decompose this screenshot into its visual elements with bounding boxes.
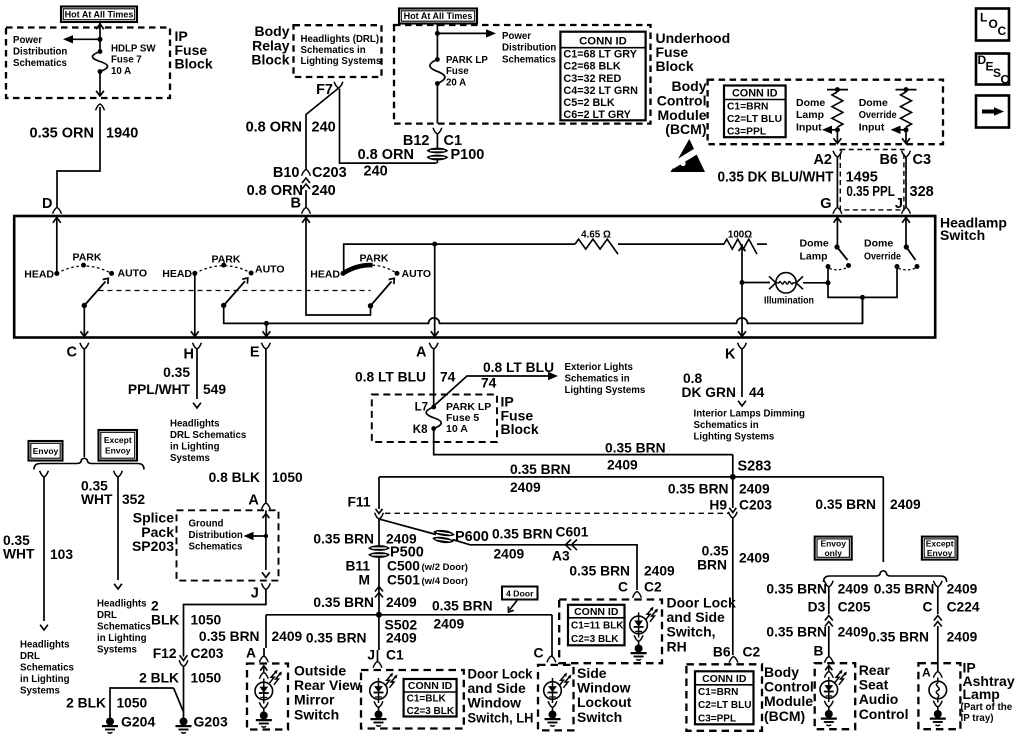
svg-text:CONN ID: CONN ID [574,606,619,618]
Body Relay Block dashed box [294,25,382,77]
connector fork to rear seat ground [824,701,833,707]
IP fuse block dashed box (lower) [372,395,497,443]
selector arc switch 1 [57,266,112,274]
svg-text:0.8 LT BLU: 0.8 LT BLU [355,370,426,385]
body control module bottom box [686,664,762,731]
svg-text:Control: Control [859,706,909,722]
connector fork Except Envoy right branch [933,581,942,587]
svg-text:Lamp: Lamp [963,686,1000,702]
ground inside rear seat audio [821,707,837,726]
ground inside mirror switch [256,709,272,728]
svg-text:Illumination: Illumination [764,295,814,307]
svg-text:Body: Body [764,664,799,680]
svg-text:C2=LT BLU: C2=LT BLU [727,114,782,125]
svg-text:2409: 2409 [838,582,869,597]
svg-text:Ground: Ground [189,519,224,530]
arrow from 4 Door to rail [510,601,518,611]
svg-text:4 Door: 4 Door [506,588,534,598]
ground G204 [102,715,118,734]
wire B12 to P100 [436,134,438,148]
svg-text:P100: P100 [451,147,485,163]
svg-text:0.35 ORN: 0.35 ORN [30,126,94,142]
wire up to dome lamp contact [827,267,829,283]
CONN ID table door lock RH [568,605,625,646]
connector fork at K [738,343,747,349]
svg-text:Block: Block [501,421,539,437]
wire D to HEAD contact (switch 1) [56,216,58,272]
svg-text:0.35 BRN: 0.35 BRN [432,599,493,614]
svg-text:AUTO: AUTO [402,268,432,280]
wire junction to E [265,323,267,336]
svg-text:0.35 BRN: 0.35 BRN [306,631,367,646]
svg-text:K8: K8 [413,424,428,436]
wire between resistors [618,243,724,245]
svg-text:AUTO: AUTO [118,268,148,280]
svg-text:C6=2 LT GRY: C6=2 LT GRY [563,109,631,121]
connector fork to mirror ground [259,702,268,708]
svg-text:Envoy: Envoy [105,446,131,456]
connector fork to RH ground [634,635,643,641]
wire from Hot At All Times to fuse [99,22,101,52]
wire S283 rail left corner to F11 [378,477,380,509]
svg-text:328: 328 [910,184,934,200]
connector fork at F11 C203 [375,513,384,519]
svg-text:Switch: Switch [294,706,339,722]
connector fork at splice pack J [262,583,271,589]
svg-text:CONN ID: CONN ID [732,88,778,100]
contact PARK switch 1 [81,263,86,268]
variant brace right [824,571,947,582]
svg-text:0.35 BRN: 0.35 BRN [492,527,553,542]
svg-text:C2=3 BLK: C2=3 BLK [407,706,455,717]
svg-text:CONN ID: CONN ID [702,673,747,685]
svg-text:Input: Input [796,121,822,133]
svg-text:2409: 2409 [272,629,303,644]
selector lever switch 3 [371,282,392,306]
svg-text:M: M [359,573,371,588]
svg-text:Hot At All Times: Hot At All Times [65,9,134,19]
svg-text:Window: Window [468,695,522,711]
svg-text:Schematics in: Schematics in [565,374,630,385]
svg-text:C: C [1001,73,1010,87]
variant brace below C [34,458,144,469]
svg-text:0.8 LT BLU: 0.8 LT BLU [483,360,554,375]
svg-text:Interior Lamps Dimming: Interior Lamps Dimming [694,409,806,420]
svg-text:Module: Module [764,693,813,709]
svg-text:DRL: DRL [97,610,117,621]
svg-text:L: L [980,11,987,25]
svg-text:Lighting Systems: Lighting Systems [694,432,775,443]
CONN ID table door lock LH [404,679,457,717]
svg-text:RH: RH [667,638,687,654]
connector chevrons C500/C501 [375,587,383,598]
contact HEAD switch 2 [192,271,197,276]
lightning bolt mirror switch [270,671,281,685]
svg-text:1940: 1940 [106,126,138,142]
connector chevron inside mirror switch [260,666,267,671]
svg-text:C: C [67,345,78,361]
svg-text:Envoy: Envoy [820,538,846,548]
svg-text:D: D [42,196,52,212]
svg-text:0.35 BRN: 0.35 BRN [313,595,374,610]
svg-text:2409: 2409 [510,480,541,495]
svg-text:(BCM): (BCM) [665,121,706,137]
svg-text:0.35 BRN: 0.35 BRN [766,582,827,597]
svg-text:549: 549 [203,382,226,397]
connector C203 dashed line [385,512,729,514]
svg-text:Headlights: Headlights [97,599,147,610]
connector fork at B [302,208,311,214]
svg-text:in Lighting: in Lighting [170,442,220,453]
illumination lamp [769,273,803,293]
node junction dome rail [860,295,865,300]
svg-text:PARK: PARK [360,253,389,265]
svg-text:J: J [895,196,903,212]
svg-text:Fuse: Fuse [446,66,469,77]
wire arrow to Power Distribution Schematics [72,38,100,40]
svg-text:0.35 BRN: 0.35 BRN [815,497,876,512]
svg-text:WHT: WHT [3,547,35,562]
resistor dome lamp input pull-up [827,89,848,91]
svg-text:0.35 BRN: 0.35 BRN [605,441,666,456]
svg-text:C2=LT BLU: C2=LT BLU [698,700,751,711]
wire 0.35 BRN C224 [937,587,939,614]
svg-text:Lighting Systems: Lighting Systems [301,56,382,67]
svg-text:PARK: PARK [212,254,241,266]
svg-text:C203: C203 [739,498,772,513]
connector fork at B12 C1 [433,128,442,134]
switch dome lamp [834,244,839,249]
svg-text:2: 2 [151,599,159,614]
svg-text:in Lighting: in Lighting [20,674,70,685]
wire G204 branch [110,688,174,716]
wire F7 diagonal to B10 [306,89,338,170]
splice pack SP203 dashed box [177,510,279,580]
svg-text:Except: Except [104,435,132,445]
wire F7 down-right to P100 [340,89,437,164]
svg-text:Door Lock: Door Lock [667,595,736,611]
svg-text:Window: Window [577,680,631,696]
label box Except Envoy (right) [922,537,958,560]
wire F11 to P600 [379,519,436,535]
wire 100 ohm tap to K [741,244,743,336]
svg-text:240: 240 [312,120,336,136]
connector fork at splice pack A [262,503,271,509]
selector lever switch 2 [224,281,245,305]
connector fork at J [902,208,911,214]
connector fork at door lock LH [373,662,382,668]
wire S502 lateral rail [266,614,552,616]
svg-text:(w/2 Door): (w/2 Door) [422,562,468,573]
node junction at resistor rail [432,242,437,247]
svg-text:10 A: 10 A [111,66,131,77]
svg-text:Systems: Systems [97,645,137,656]
svg-text:0.35 BRN: 0.35 BRN [874,582,935,597]
lamp IP ashtray [929,678,947,703]
svg-text:DRL: DRL [20,651,40,662]
ground G203 [176,715,192,734]
ESD sensitive device symbol [671,139,706,172]
svg-text:2409: 2409 [386,595,417,610]
svg-text:C3=PPL: C3=PPL [698,713,736,724]
outside rear view mirror switch box [247,664,288,730]
svg-text:74: 74 [440,370,456,385]
svg-text:74: 74 [481,376,497,391]
connector fork Envoy branch [40,471,49,477]
svg-text:SP203: SP203 [132,538,174,554]
svg-text:0.35 BRN: 0.35 BRN [766,625,827,640]
wire S283 rail [379,476,883,478]
lightning bolt lockout switch [559,674,570,688]
connector fork to ashtray ground [933,701,942,707]
wire B to switch 3 pivot [306,216,371,315]
selector lever switch 1 [84,282,105,306]
arrow up at B inside box [302,218,310,223]
svg-text:Lockout: Lockout [577,694,632,710]
svg-text:20 A: 20 A [446,77,466,88]
contact HEAD switch 3 [341,271,346,276]
svg-text:C203: C203 [191,646,224,661]
svg-text:Override: Override [864,251,901,263]
lamp rear seat audio [820,677,838,702]
svg-text:C5=2 BLK: C5=2 BLK [563,97,615,109]
contact PARK switch 2 [221,263,226,268]
svg-text:Lamp: Lamp [800,251,828,263]
variant dashed box 1495/0.35 PPL [840,150,904,210]
forward arrow reference box [976,96,1009,128]
svg-text:C1=68 LT GRY: C1=68 LT GRY [563,49,637,61]
connector chevrons C203 [302,178,310,189]
svg-text:0.8: 0.8 [683,371,703,386]
svg-text:Hot At All Times: Hot At All Times [404,11,473,21]
wire fuse to box bottom [436,84,438,124]
svg-text:C2=68 BLK: C2=68 BLK [563,61,621,73]
svg-text:Dome: Dome [796,97,825,109]
wire 0.35 DK BLU/WHT 1495 [836,157,838,207]
wire branch to exterior lights [434,376,549,406]
wire splice pack to F12 [184,590,266,657]
svg-text:Lamp: Lamp [796,109,824,121]
wire through splice pack [265,510,267,570]
DESC reference box [976,54,1009,85]
wire P600 to door lock RH [453,540,638,591]
svg-text:4.65 Ω: 4.65 Ω [581,230,611,241]
wire fuse to box edge [99,72,101,97]
connector fork at H [193,343,202,349]
svg-text:G203: G203 [194,714,228,730]
connector fork to LH ground [374,701,383,707]
wire P500 to S502 [378,557,380,615]
svg-text:2409: 2409 [947,630,978,645]
wire dome rail to park rail [862,297,864,323]
CONN ID table of BCM [724,86,786,138]
wire into PARK LP fuse [436,24,438,60]
svg-text:A: A [246,646,256,661]
svg-text:Mirror: Mirror [294,692,335,708]
svg-text:C1: C1 [386,648,404,663]
svg-text:Distribution: Distribution [502,43,556,54]
Underhood Fuse Block dashed box [394,25,651,124]
svg-text:G: G [820,196,831,212]
svg-text:in Lighting: in Lighting [97,633,147,644]
svg-text:Except: Except [926,538,954,548]
label box Envoy only [815,537,852,560]
svg-text:Headlights (DRL): Headlights (DRL) [301,34,380,45]
svg-text:G204: G204 [121,714,155,730]
wire lateral to lockout switch [551,615,553,656]
contact AUTO switch 3 [395,271,400,276]
svg-text:AUTO: AUTO [255,264,285,276]
svg-text:Fuse 7: Fuse 7 [111,55,142,66]
svg-text:Envoy: Envoy [33,446,59,456]
fuse HDLP SW Fuse 7 10 A [98,49,103,54]
wire 0.35 PPL 328 [905,157,907,207]
svg-text:C205: C205 [838,600,871,615]
svg-text:Switch: Switch [577,709,622,725]
connector fork at A [429,343,438,349]
fuse PARK LP Fuse 5 10 A [431,405,436,410]
mechanical linkage dashed line [99,290,371,292]
connector P500 [368,545,390,558]
svg-text:2409: 2409 [434,617,465,632]
svg-text:C: C [923,600,933,615]
svg-text:0.35 PPL: 0.35 PPL [846,184,895,200]
wire C203 to B [305,190,307,207]
svg-text:(Part of the: (Part of the [961,702,1013,713]
switch dome override [904,244,909,249]
wire P100 to corner [436,160,438,164]
svg-text:2409: 2409 [838,625,869,640]
svg-text:CONN ID: CONN ID [579,36,627,48]
selector arc switch 2 [195,266,251,274]
svg-text:Door Lock: Door Lock [468,666,533,682]
svg-text:2409: 2409 [890,497,921,512]
svg-text:BRN: BRN [697,558,727,573]
connector fork at G [833,208,842,214]
svg-text:IP tray): IP tray) [961,713,994,724]
connector fork at A2 [833,151,842,157]
wire K8 to S283 rail [434,429,733,455]
svg-text:1050: 1050 [191,613,222,628]
wire F12 to G203 [183,667,185,717]
connector fork at lockout switch [547,656,556,662]
svg-text:0.35 BRN: 0.35 BRN [569,564,630,579]
svg-text:Headlights: Headlights [170,419,220,430]
selector arc switch 3 (dashed) [373,265,398,273]
svg-text:Schematics: Schematics [13,58,67,69]
connector fork at F7 [334,82,343,88]
svg-text:C1=11 BLK: C1=11 BLK [571,620,624,631]
svg-text:C501: C501 [387,573,420,588]
label box Hot At All Times (middle) [399,9,477,24]
svg-text:240: 240 [312,183,336,199]
contact AUTO switch 2 [249,271,254,276]
svg-text:Switch, LH: Switch, LH [468,709,534,725]
wire S502 to door lock LH [378,615,380,650]
wire dome contact rail [828,267,897,298]
connector fork to lockout ground [548,701,557,707]
svg-text:C1=BRN: C1=BRN [727,101,768,112]
wire G to dome lamp switch [836,216,838,247]
wire dome lamp input to box edge [836,130,838,143]
wire S283 rail right corner [882,477,884,562]
wire junction to resistor 4.65 [435,243,575,245]
svg-text:B: B [814,644,824,659]
svg-text:2 BLK: 2 BLK [66,696,106,711]
svg-text:A: A [922,666,931,680]
svg-text:C: C [618,580,628,595]
arrow up at D inside box [53,218,61,223]
svg-text:J: J [251,586,259,602]
svg-text:0.35: 0.35 [163,365,190,380]
svg-text:C1=BLK: C1=BLK [407,694,447,705]
ground inside door lock LH [371,708,387,727]
connector fork at C [80,343,89,349]
svg-text:Schematics in: Schematics in [301,45,366,56]
contact HEAD switch 1 [54,271,59,276]
svg-text:Lighting Systems: Lighting Systems [565,385,646,396]
wire 0.8 BLK 1050 [265,349,267,503]
svg-text:HEAD: HEAD [24,269,54,281]
svg-text:2409: 2409 [494,547,525,562]
svg-text:F11: F11 [347,495,370,510]
svg-text:0.35 BRN: 0.35 BRN [668,482,729,497]
svg-text:2409: 2409 [607,458,638,473]
svg-text:Input: Input [859,121,885,133]
lamp lockout switch [544,678,562,703]
svg-text:PARK: PARK [73,252,102,264]
lamp outside rear view mirror switch [255,679,273,704]
svg-text:PPL/WHT: PPL/WHT [128,382,191,397]
connector chevrons C601 [566,540,578,551]
wire arrow at dome lamp input [828,129,837,131]
wire resistor tail [757,243,767,245]
svg-text:C3=32 RED: C3=32 RED [563,73,621,85]
svg-text:0.35 DK BLU/WHT: 0.35 DK BLU/WHT [718,170,834,186]
svg-text:Dome: Dome [859,97,888,109]
wire HEAD contact to H (switch 2) [194,273,196,336]
svg-text:C2=3 BLK: C2=3 BLK [571,634,619,645]
ground inside ashtray lamp [930,707,946,726]
svg-text:Distribution: Distribution [189,530,243,541]
svg-text:2409: 2409 [947,582,978,597]
wire 0.8 DK GRN 44 [741,349,743,397]
connector chevron inside rear seat audio [825,666,832,671]
ground inside lockout switch [545,708,561,727]
svg-text:10 A: 10 A [446,423,468,435]
svg-text:BLK: BLK [151,613,179,628]
wire arrow to Ground Distribution Schematics [249,535,266,537]
svg-text:Outside: Outside [294,663,346,679]
wire 0.35 BRN D3 [828,587,830,614]
door lock RH box [559,600,662,664]
BCM dashed box [708,80,943,145]
svg-text:103: 103 [50,547,73,562]
svg-text:K: K [725,347,736,363]
connector fork Envoy only branch [824,581,833,587]
svg-text:1050: 1050 [191,671,222,686]
node junction above fuse [98,37,103,42]
svg-text:C2: C2 [644,580,662,595]
svg-text:2 BLK: 2 BLK [139,671,179,686]
svg-text:CONN ID: CONN ID [408,680,453,692]
connector P600 [432,529,456,545]
lightning bolt rear seat audio [835,671,846,685]
connector fork at door lock RH [633,592,642,598]
wire dome override input to box edge [905,130,907,143]
svg-text:DRL Schematics: DRL Schematics [170,430,246,441]
svg-text:0.35 BRN: 0.35 BRN [199,629,260,644]
